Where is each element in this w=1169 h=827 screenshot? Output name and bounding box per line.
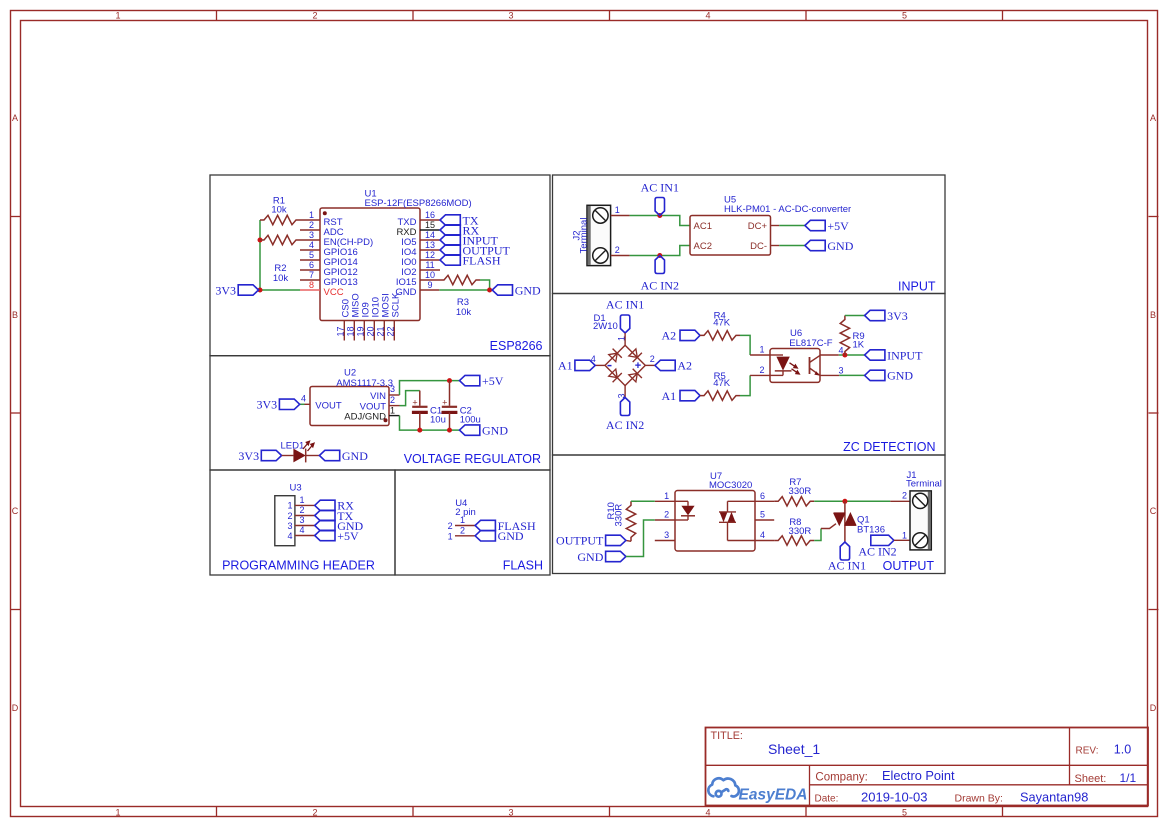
svg-text:12: 12 <box>425 250 435 260</box>
svg-text:17: 17 <box>336 326 346 336</box>
svg-text:4: 4 <box>838 346 843 356</box>
svg-text:330R: 330R <box>789 526 812 537</box>
svg-text:2: 2 <box>460 526 465 536</box>
svg-text:4: 4 <box>705 807 710 817</box>
svg-text:3: 3 <box>508 807 513 817</box>
svg-text:5: 5 <box>902 10 907 20</box>
svg-text:20: 20 <box>366 326 376 336</box>
svg-text:1: 1 <box>299 495 304 505</box>
svg-text:+5V: +5V <box>337 529 359 543</box>
svg-text:3: 3 <box>299 515 304 525</box>
svg-text:AC IN1: AC IN1 <box>641 181 679 195</box>
svg-text:2: 2 <box>312 10 317 20</box>
svg-text:5: 5 <box>902 807 907 817</box>
svg-text:C: C <box>1150 506 1157 516</box>
svg-text:PROGRAMMING HEADER: PROGRAMMING HEADER <box>222 559 375 573</box>
svg-text:OUTPUT: OUTPUT <box>556 534 604 548</box>
svg-text:10k: 10k <box>271 205 287 216</box>
svg-text:2: 2 <box>390 395 395 405</box>
svg-text:A1: A1 <box>558 359 573 373</box>
svg-text:18: 18 <box>346 326 356 336</box>
svg-text:INPUT: INPUT <box>887 348 923 362</box>
svg-text:2: 2 <box>448 521 453 531</box>
svg-text:Electro Point: Electro Point <box>882 768 955 783</box>
svg-text:Drawn By:: Drawn By: <box>955 793 1003 805</box>
svg-text:4: 4 <box>301 394 306 404</box>
svg-text:3V3: 3V3 <box>215 283 236 297</box>
svg-text:47K: 47K <box>713 378 731 389</box>
svg-text:1: 1 <box>390 406 395 416</box>
svg-text:A2: A2 <box>662 329 677 343</box>
svg-text:2: 2 <box>615 245 620 255</box>
svg-text:1: 1 <box>115 807 120 817</box>
svg-text:Date:: Date: <box>815 794 839 805</box>
svg-text:+: + <box>442 397 447 407</box>
svg-text:INPUT: INPUT <box>898 280 936 294</box>
svg-text:D: D <box>1150 703 1157 713</box>
svg-text:1K: 1K <box>853 340 865 351</box>
svg-text:GND: GND <box>577 550 603 564</box>
svg-text:7: 7 <box>309 270 314 280</box>
svg-text:330R: 330R <box>614 504 625 527</box>
svg-text:16: 16 <box>425 210 435 220</box>
svg-text:1: 1 <box>615 205 620 215</box>
svg-text:GND: GND <box>342 449 368 463</box>
svg-text:1: 1 <box>115 10 120 20</box>
svg-text:3: 3 <box>390 384 395 394</box>
svg-text:11: 11 <box>425 260 434 270</box>
svg-text:Sheet_1: Sheet_1 <box>768 741 820 757</box>
svg-text:3: 3 <box>664 530 669 540</box>
svg-text:1: 1 <box>448 531 453 541</box>
svg-text:3: 3 <box>508 10 513 20</box>
svg-text:U2: U2 <box>344 368 356 379</box>
svg-text:6: 6 <box>760 491 765 501</box>
svg-text:AMS1117-3.3: AMS1117-3.3 <box>336 378 393 389</box>
svg-text:5: 5 <box>760 510 765 520</box>
svg-text:VCC: VCC <box>324 287 344 298</box>
svg-text:BT136: BT136 <box>857 525 885 536</box>
svg-text:GND: GND <box>887 369 913 383</box>
svg-text:AC1: AC1 <box>694 221 712 232</box>
svg-text:+: + <box>635 360 641 372</box>
svg-text:+5V: +5V <box>482 374 504 388</box>
svg-text:ESP-12F(ESP8266MOD): ESP-12F(ESP8266MOD) <box>365 198 472 209</box>
svg-text:2: 2 <box>287 511 292 521</box>
svg-text:2: 2 <box>309 220 314 230</box>
svg-text:8: 8 <box>309 280 314 290</box>
svg-text:ADJ/GND: ADJ/GND <box>344 412 386 423</box>
svg-text:DC-: DC- <box>750 241 767 252</box>
svg-text:A2: A2 <box>677 359 692 373</box>
svg-text:3V3: 3V3 <box>887 309 908 323</box>
svg-text:4: 4 <box>287 531 292 541</box>
svg-text:B: B <box>1150 310 1156 320</box>
svg-text:1: 1 <box>902 530 907 540</box>
svg-text:330R: 330R <box>789 486 812 497</box>
svg-text:1/1: 1/1 <box>1120 771 1137 785</box>
svg-text:10k: 10k <box>456 307 472 318</box>
svg-text:2: 2 <box>299 505 304 515</box>
svg-text:B: B <box>12 310 18 320</box>
svg-text:4: 4 <box>309 240 314 250</box>
svg-text:A1: A1 <box>662 389 677 403</box>
svg-text:FLASH: FLASH <box>463 253 501 267</box>
svg-text:3: 3 <box>838 366 843 376</box>
svg-text:AC IN1: AC IN1 <box>606 298 644 312</box>
svg-text:10: 10 <box>425 270 435 280</box>
svg-text:VOUT: VOUT <box>315 401 342 412</box>
svg-text:10k: 10k <box>273 273 289 284</box>
svg-text:9: 9 <box>427 280 432 290</box>
svg-text:1: 1 <box>759 345 764 355</box>
svg-text:19: 19 <box>356 326 366 336</box>
svg-text:2: 2 <box>312 807 317 817</box>
svg-text:15: 15 <box>425 220 435 230</box>
svg-text:ZC DETECTION: ZC DETECTION <box>843 440 935 454</box>
svg-text:REV:: REV: <box>1076 745 1099 756</box>
svg-text:AC IN1: AC IN1 <box>828 558 866 572</box>
svg-text:2: 2 <box>759 365 764 375</box>
svg-text:AC2: AC2 <box>694 241 712 252</box>
svg-text:+: + <box>412 397 417 407</box>
svg-text:1.0: 1.0 <box>1114 742 1131 756</box>
svg-text:2 pin: 2 pin <box>455 507 476 518</box>
svg-text:Company:: Company: <box>815 772 867 784</box>
svg-text:ESP8266: ESP8266 <box>490 339 543 353</box>
svg-text:13: 13 <box>425 240 435 250</box>
svg-text:6: 6 <box>309 260 314 270</box>
svg-text:GND: GND <box>827 239 853 253</box>
svg-text:10u: 10u <box>430 415 446 426</box>
svg-text:2: 2 <box>902 491 907 501</box>
svg-text:AC IN2: AC IN2 <box>606 418 644 432</box>
svg-text:1: 1 <box>287 501 292 511</box>
svg-text:22: 22 <box>386 326 396 336</box>
svg-text:3: 3 <box>309 230 314 240</box>
svg-text:4: 4 <box>299 525 304 535</box>
svg-text:+5V: +5V <box>827 219 849 233</box>
svg-text:3V3: 3V3 <box>238 449 259 463</box>
svg-text:FLASH: FLASH <box>503 559 543 573</box>
svg-text:VOLTAGE REGULATOR: VOLTAGE REGULATOR <box>404 452 541 466</box>
svg-text:A: A <box>12 113 18 123</box>
svg-text:LED1: LED1 <box>281 441 305 452</box>
svg-text:3: 3 <box>287 521 292 531</box>
svg-text:A: A <box>1150 113 1156 123</box>
svg-text:21: 21 <box>376 326 386 336</box>
svg-text:2019-10-03: 2019-10-03 <box>861 790 928 805</box>
svg-text:2W10: 2W10 <box>593 321 618 332</box>
svg-text:HLK-PM01 - AC-DC-converter: HLK-PM01 - AC-DC-converter <box>724 204 851 215</box>
svg-text:Terminal: Terminal <box>578 218 589 254</box>
svg-text:1: 1 <box>460 515 465 525</box>
svg-text:AC IN2: AC IN2 <box>858 545 896 559</box>
svg-text:1: 1 <box>309 210 314 220</box>
svg-text:MOC3020: MOC3020 <box>709 480 752 491</box>
svg-text:2: 2 <box>650 354 655 364</box>
svg-text:4: 4 <box>705 10 710 20</box>
svg-text:Terminal: Terminal <box>906 479 942 490</box>
svg-text:Sheet:: Sheet: <box>1075 773 1107 785</box>
svg-text:GND: GND <box>498 529 524 543</box>
svg-text:TITLE:: TITLE: <box>711 730 743 742</box>
svg-text:GND: GND <box>515 283 541 297</box>
svg-text:4: 4 <box>760 530 765 540</box>
svg-text:SCLK: SCLK <box>390 292 401 317</box>
svg-text:EL817C-F: EL817C-F <box>789 338 832 349</box>
svg-text:EasyEDA: EasyEDA <box>739 787 808 804</box>
svg-text:DC+: DC+ <box>748 221 768 232</box>
svg-text:GND: GND <box>482 423 508 437</box>
svg-text:C: C <box>12 506 19 516</box>
svg-text:Sayantan98: Sayantan98 <box>1020 790 1088 805</box>
svg-text:U3: U3 <box>290 482 302 493</box>
svg-text:1: 1 <box>617 336 627 341</box>
svg-text:3V3: 3V3 <box>257 398 278 412</box>
svg-text:100u: 100u <box>460 415 481 426</box>
svg-text:D: D <box>12 703 19 713</box>
svg-text:47K: 47K <box>713 318 731 329</box>
svg-text:AC IN2: AC IN2 <box>641 279 679 293</box>
svg-text:5: 5 <box>309 250 314 260</box>
svg-text:1: 1 <box>664 491 669 501</box>
svg-text:2: 2 <box>664 510 669 520</box>
svg-text:14: 14 <box>425 230 435 240</box>
svg-text:OUTPUT: OUTPUT <box>883 559 935 573</box>
